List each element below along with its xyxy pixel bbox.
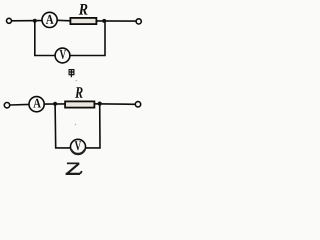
node B (junction right, voltmeter tap) bbox=[102, 19, 106, 23]
voltmeter V2 bottom arc (heavy scan stroke) bbox=[72, 150, 85, 154]
voltmeter V2 bbox=[70, 139, 85, 154]
wire resistor to right terminal bbox=[97, 20, 137, 22]
paper background bbox=[0, 0, 156, 179]
value label R (bottom resistor) bbox=[75, 87, 83, 98]
wire voltmeter branch left (down and right) bbox=[35, 21, 55, 56]
wire voltmeter branch right (right and up) bbox=[70, 21, 105, 56]
label V (voltmeter V2) bbox=[75, 141, 81, 150]
terminal T3 left bbox=[4, 103, 9, 108]
node C (junction left, voltmeter tap) bbox=[53, 102, 57, 106]
wire voltmeter branch right (right and up) bbox=[86, 104, 101, 148]
wire ammeter to resistor bbox=[44, 103, 65, 105]
resistor R (box, bottom circuit) bbox=[65, 101, 94, 107]
terminal T1 left bbox=[7, 18, 12, 23]
ammeter A1 bbox=[42, 12, 57, 27]
voltmeter V1 bbox=[55, 48, 70, 63]
label A (ammeter A1) bbox=[46, 15, 54, 24]
wire resistor to right terminal bbox=[94, 103, 135, 106]
scan speck (above bottom R label) bbox=[76, 80, 77, 81]
label yi (Chinese 乙) drawn as strokes bbox=[66, 163, 82, 174]
label jia (Chinese 甲) drawn as strokes bbox=[69, 70, 74, 78]
node D (junction right, voltmeter tap) bbox=[98, 102, 102, 106]
ammeter A2 bbox=[29, 97, 44, 112]
wire left terminal to ammeter bbox=[10, 103, 30, 106]
value label R (top resistor) bbox=[79, 4, 88, 15]
label V (voltmeter V1) bbox=[60, 50, 66, 59]
terminal T4 right bbox=[135, 102, 140, 107]
wire left terminal to ammeter bbox=[11, 20, 42, 22]
terminal T2 right bbox=[136, 19, 141, 24]
scan speck (inside bottom loop) bbox=[75, 124, 77, 126]
label A (ammeter A2) bbox=[33, 99, 41, 108]
wire ammeter to resistor bbox=[57, 19, 70, 22]
node A (junction left, voltmeter tap) bbox=[33, 19, 37, 23]
wire voltmeter branch left (down and right) bbox=[55, 104, 70, 148]
resistor R (box) bbox=[70, 18, 96, 24]
